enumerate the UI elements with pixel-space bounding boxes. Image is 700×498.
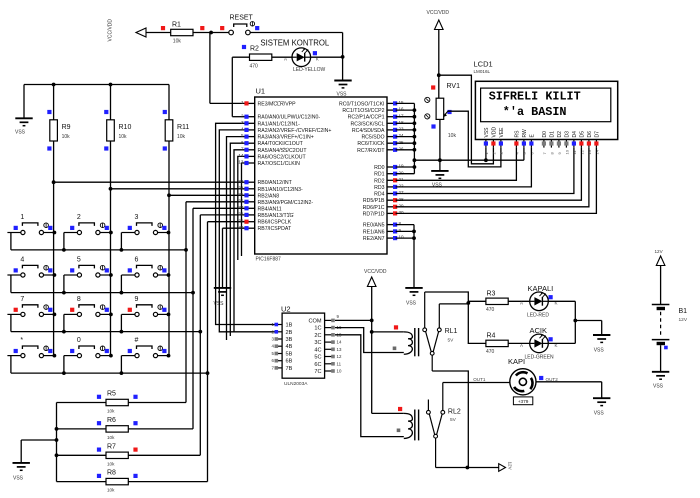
svg-text:#: # xyxy=(135,337,139,344)
svg-text:RV1: RV1 xyxy=(447,83,461,90)
svg-text:20: 20 xyxy=(399,170,405,175)
svg-text:7B: 7B xyxy=(286,366,293,372)
svg-text:R6: R6 xyxy=(107,417,116,424)
wire key 2 stub xyxy=(63,233,65,250)
svg-text:A: A xyxy=(520,343,523,348)
wire col2 to RB1 xyxy=(111,188,247,190)
wire LCD RW to ground xyxy=(523,148,525,161)
wire R2 to RA0 xyxy=(232,56,249,58)
svg-text:RC4/SDI/SDA: RC4/SDI/SDA xyxy=(352,128,385,134)
svg-text:RA5/AN4/SS/C2OUT: RA5/AN4/SS/C2OUT xyxy=(258,148,308,154)
wire to VSS ground LED rows xyxy=(575,320,601,322)
svg-text:RE3/MCLR/VPP: RE3/MCLR/VPP xyxy=(258,101,297,107)
svg-text:39: 39 xyxy=(238,218,244,223)
pin 4 U2 left xyxy=(276,345,282,347)
wire row2 riser xyxy=(192,208,194,429)
wire RA2 to U2 2B xyxy=(219,130,275,332)
svg-text:RC5/SDO: RC5/SDO xyxy=(361,135,384,141)
svg-text:2: 2 xyxy=(77,214,81,221)
svg-text:VSS: VSS xyxy=(653,384,664,390)
svg-text:U2: U2 xyxy=(281,305,291,314)
svg-text:38: 38 xyxy=(238,212,244,217)
wire LED green return xyxy=(548,342,575,344)
pin 34 U1 left xyxy=(246,188,255,190)
svg-text:RE1/AN6: RE1/AN6 xyxy=(363,229,385,235)
svg-text:*: * xyxy=(20,337,23,344)
svg-text:3B: 3B xyxy=(286,337,293,343)
wire R1 to RESET xyxy=(193,32,229,34)
wire RA1 to U2 1B xyxy=(216,123,276,324)
svg-text:5V: 5V xyxy=(450,417,457,423)
wire col1 to RB0 xyxy=(54,181,246,183)
junction key 4 column xyxy=(53,273,57,277)
svg-text:1B: 1B xyxy=(286,323,293,329)
svg-text:A: A xyxy=(520,301,523,306)
pin 25 U1 right xyxy=(387,142,396,144)
pin 16 U2 right xyxy=(325,327,334,329)
wire RA3 stub run xyxy=(227,137,247,340)
svg-text:10k: 10k xyxy=(107,409,115,414)
svg-text:RC0/T1OSO/T1CKI: RC0/T1OSO/T1CKI xyxy=(339,101,385,107)
pin 40 U1 left xyxy=(246,227,255,229)
svg-text:RC6/TX/CK: RC6/TX/CK xyxy=(357,141,385,147)
svg-text:R5: R5 xyxy=(107,391,116,398)
svg-text:VSS: VSS xyxy=(432,183,443,189)
svg-text:17: 17 xyxy=(399,113,405,118)
pin 36 U1 left xyxy=(246,201,255,203)
wire key 5 stub xyxy=(63,275,65,293)
svg-text:4C: 4C xyxy=(314,347,321,353)
svg-text:RB5/AN13/T1G: RB5/AN13/T1G xyxy=(258,213,294,219)
svg-text:VSS: VSS xyxy=(594,411,605,417)
pin 7 U2 left xyxy=(276,367,282,369)
wire RL2 common to 12V rail xyxy=(436,467,499,469)
pin 2 U2 left xyxy=(276,331,282,333)
svg-text:RC7/RX/DT: RC7/RX/DT xyxy=(357,148,385,154)
pin 8 U1 right xyxy=(387,224,396,226)
svg-text:10k: 10k xyxy=(173,39,182,45)
svg-text:4: 4 xyxy=(241,127,244,132)
wire keypad row 4 xyxy=(11,372,208,374)
svg-text:RB4/AN11: RB4/AN11 xyxy=(258,206,282,212)
wire LCD RS to RD2 xyxy=(396,148,517,181)
pin 1 U2 left xyxy=(276,324,282,326)
wire RA7 stub run xyxy=(242,163,247,256)
wire column 3 xyxy=(168,85,170,120)
svg-text:23: 23 xyxy=(399,127,405,132)
wire R5-R8 common xyxy=(56,403,58,482)
wire column 2 xyxy=(110,85,112,120)
ground top-left VSS xyxy=(15,117,32,119)
wire row3 riser xyxy=(199,215,201,455)
svg-text:11: 11 xyxy=(337,361,342,366)
wire U2 COM to VCC xyxy=(335,319,372,321)
svg-text:28: 28 xyxy=(399,197,405,202)
relay RL2 coil xyxy=(372,412,404,414)
wire VCC to R1 xyxy=(146,32,171,34)
svg-text:10: 10 xyxy=(337,369,342,374)
svg-text:15: 15 xyxy=(399,100,405,105)
wire key * stub xyxy=(10,356,12,374)
svg-text:VCC/VDD: VCC/VDD xyxy=(108,19,114,42)
svg-text:R2: R2 xyxy=(250,46,259,53)
svg-text:6: 6 xyxy=(135,257,139,264)
svg-text:13: 13 xyxy=(337,347,342,352)
svg-text:19: 19 xyxy=(399,164,405,169)
wire row1 riser xyxy=(185,202,187,403)
svg-text:10k: 10k xyxy=(107,435,115,440)
pin 10 U2 right xyxy=(325,370,334,372)
svg-text:2C: 2C xyxy=(314,333,321,339)
ground bottom-left (VSS) xyxy=(13,462,30,464)
pin 30 U1 right xyxy=(387,212,396,214)
svg-text:18: 18 xyxy=(399,120,405,125)
svg-text:12V: 12V xyxy=(507,462,512,471)
svg-text:4B: 4B xyxy=(286,344,293,350)
svg-text:36: 36 xyxy=(238,198,244,203)
svg-text:RB0/AN12/INT: RB0/AN12/INT xyxy=(258,180,293,186)
svg-text:RA7/OSC1/CLKIN: RA7/OSC1/CLKIN xyxy=(258,161,301,167)
pin 4 U1 left xyxy=(246,129,255,131)
svg-text:12V: 12V xyxy=(655,249,664,254)
wire keypad row 2 xyxy=(11,292,193,294)
svg-text:7: 7 xyxy=(241,146,244,151)
svg-text:12V: 12V xyxy=(679,317,688,323)
pin 6 U1 left xyxy=(246,142,255,144)
LED D1 LED-YELLOW xyxy=(292,48,311,67)
svg-text:5: 5 xyxy=(77,257,81,264)
wire key 1 stub xyxy=(10,233,12,250)
pin 13 U1 left xyxy=(246,162,255,164)
svg-text:10: 10 xyxy=(564,149,569,154)
wire LCD ground rail xyxy=(414,159,524,161)
svg-text:RD2: RD2 xyxy=(374,178,384,184)
wire RL1 common to 12V xyxy=(432,371,468,468)
svg-text:35: 35 xyxy=(238,192,244,197)
svg-text:RB3/AN9/PGM/C12IN2-: RB3/AN9/PGM/C12IN2- xyxy=(258,200,314,206)
wire RA5 stub run xyxy=(234,150,246,332)
svg-text:22: 22 xyxy=(399,184,405,189)
svg-text:4: 4 xyxy=(20,257,24,264)
svg-text:1C: 1C xyxy=(314,326,321,332)
pin 18 U1 right xyxy=(387,122,396,124)
svg-text:RD4: RD4 xyxy=(374,192,384,198)
svg-text:2B: 2B xyxy=(286,330,293,336)
pin 13 U2 right xyxy=(325,348,334,350)
pin 28 U1 right xyxy=(387,199,396,201)
junction key 0 column xyxy=(109,354,113,358)
svg-text:5B: 5B xyxy=(286,352,293,358)
wire R6 row xyxy=(57,428,107,430)
pin 2 U1 left xyxy=(246,116,255,118)
wire RL2 NO to motor xyxy=(443,382,510,384)
svg-text:D4: D4 xyxy=(572,131,578,138)
svg-text:RA6/OSC2/CLKOUT: RA6/OSC2/CLKOUT xyxy=(258,154,307,160)
svg-text:R8: R8 xyxy=(107,470,116,477)
svg-text:37: 37 xyxy=(238,205,244,210)
wire R5 row xyxy=(57,402,107,404)
wire RESET to ground rail xyxy=(250,32,342,34)
ground above U1 (VSS) xyxy=(334,80,351,82)
svg-text:RA2/AN2/VREF-/CVREF/C2IN+: RA2/AN2/VREF-/CVREF/C2IN+ xyxy=(258,128,332,134)
svg-text:14: 14 xyxy=(337,340,342,345)
svg-text:VCC/VDD: VCC/VDD xyxy=(364,269,387,275)
svg-text:34: 34 xyxy=(238,185,244,190)
relay RL1 coil xyxy=(372,331,404,333)
svg-text:*'a BASIN: *'a BASIN xyxy=(503,105,567,119)
svg-text:10k: 10k xyxy=(107,488,115,493)
wire LCD VSS xyxy=(485,148,487,161)
pin 17 U1 right xyxy=(387,116,396,118)
svg-text:16: 16 xyxy=(399,107,405,112)
svg-text:21: 21 xyxy=(399,177,405,182)
svg-text:470: 470 xyxy=(486,307,495,313)
svg-text:RA4/T0CKI/C1OUT: RA4/T0CKI/C1OUT xyxy=(258,141,304,147)
svg-text:RA1/AN1/C12IN1-: RA1/AN1/C12IN1- xyxy=(258,121,301,127)
ground under U1 (VSS) xyxy=(214,287,231,289)
svg-text:D7: D7 xyxy=(595,131,601,138)
svg-text:R3: R3 xyxy=(487,291,496,298)
junction key 8 column xyxy=(109,313,113,317)
svg-text:SISTEM KONTROL: SISTEM KONTROL xyxy=(260,38,330,47)
op-amp U1 body (PIC16F887) xyxy=(255,97,387,254)
svg-text:7C: 7C xyxy=(314,369,321,375)
junction key 3 column xyxy=(167,231,171,235)
svg-text:10k: 10k xyxy=(62,134,71,140)
pin 24 U1 right xyxy=(387,136,396,138)
svg-text:40: 40 xyxy=(238,225,244,230)
svg-text:3: 3 xyxy=(241,120,244,125)
wire keypad top rail xyxy=(24,84,169,86)
svg-text:27: 27 xyxy=(399,190,405,195)
wire motor to ground xyxy=(536,381,602,383)
svg-text:RC3/SCK/SCL: RC3/SCK/SCL xyxy=(350,121,384,127)
svg-text:KAPI: KAPI xyxy=(508,357,525,366)
wire RA6 stub run xyxy=(238,156,246,260)
wire LCD D4 to RD4 xyxy=(396,148,574,194)
svg-text:PIC16F887: PIC16F887 xyxy=(256,257,282,263)
svg-text:29: 29 xyxy=(399,203,405,208)
svg-text:2: 2 xyxy=(241,113,244,118)
pin 7 U1 left xyxy=(246,149,255,151)
pin 5 U1 left xyxy=(246,136,255,138)
svg-text:RB1/AN10/C12IN3-: RB1/AN10/C12IN3- xyxy=(258,187,304,193)
pin 33 U1 left xyxy=(246,181,255,183)
motor KAPI xyxy=(510,369,536,395)
svg-text:7: 7 xyxy=(20,296,24,303)
pin 5 U2 left xyxy=(276,353,282,355)
wire key # stub xyxy=(120,356,122,374)
svg-text:LCD1: LCD1 xyxy=(474,60,493,69)
svg-text:1: 1 xyxy=(241,100,244,105)
pin 29 U1 right xyxy=(387,206,396,208)
svg-text:13: 13 xyxy=(238,160,244,165)
pin 27 U1 right xyxy=(387,193,396,195)
pin 26 U1 right xyxy=(387,149,396,151)
LED D3 LED-GREEN xyxy=(530,334,549,353)
pin 11 U2 right xyxy=(325,363,334,365)
svg-text:3C: 3C xyxy=(314,340,321,346)
junction key 9 column xyxy=(167,313,171,317)
svg-text:RA0/AN0/ULPWU/C12IN0-: RA0/AN0/ULPWU/C12IN0- xyxy=(258,115,321,121)
svg-text:RL1: RL1 xyxy=(445,328,458,335)
wire col3 to RB2 xyxy=(169,194,246,196)
pin 21 U1 right xyxy=(387,179,396,181)
svg-text:12: 12 xyxy=(337,354,342,359)
svg-text:6B: 6B xyxy=(286,359,293,365)
svg-text:K: K xyxy=(316,56,319,61)
svg-text:RC1/T1OSI/CCP2: RC1/T1OSI/CCP2 xyxy=(342,108,384,114)
wire R4 to LED green xyxy=(508,342,530,344)
wire key 7 stub xyxy=(10,314,12,331)
junction key 6 column xyxy=(167,273,171,277)
svg-text:RE0/AN5: RE0/AN5 xyxy=(363,223,385,229)
svg-text:VSS: VSS xyxy=(13,476,24,482)
svg-text:VSS: VSS xyxy=(15,130,26,136)
wire LCD D5 to RD5 xyxy=(396,148,582,201)
svg-text:COM: COM xyxy=(308,318,321,324)
svg-text:D0: D0 xyxy=(542,131,548,138)
pin 3 U2 left xyxy=(276,338,282,340)
resistor R9 xyxy=(50,120,58,141)
svg-text:RL2: RL2 xyxy=(448,409,461,416)
pin 14 U1 left xyxy=(246,155,255,157)
svg-text:D2: D2 xyxy=(557,131,563,138)
svg-text:10k: 10k xyxy=(119,134,128,140)
svg-text:3: 3 xyxy=(135,214,139,221)
pin 37 U1 left xyxy=(246,207,255,209)
wire LCD E to RD3 xyxy=(396,148,532,187)
pin 15 U1 right xyxy=(387,102,396,104)
pin 1 U1 left xyxy=(246,102,255,104)
svg-text:5: 5 xyxy=(241,133,244,138)
svg-text:RC2/P1A/CCP1: RC2/P1A/CCP1 xyxy=(348,115,385,121)
svg-text:RB7/ICSPDAT: RB7/ICSPDAT xyxy=(258,226,292,232)
power terminal 12V bottom xyxy=(499,464,506,472)
svg-text:B1: B1 xyxy=(679,308,688,315)
pin 39 U1 left xyxy=(246,221,255,223)
svg-text:5V: 5V xyxy=(448,338,455,344)
pin 9 U1 right xyxy=(387,230,396,232)
wire key 4 stub xyxy=(10,275,12,293)
svg-text:VSS: VSS xyxy=(594,348,605,354)
svg-text:470: 470 xyxy=(250,64,259,70)
svg-text:SIFRELI KILIT: SIFRELI KILIT xyxy=(489,89,581,103)
junction key * column xyxy=(53,354,57,358)
wire LCD D6 to RD6 xyxy=(396,148,589,207)
svg-text:VSS: VSS xyxy=(484,127,490,138)
ground LED rows (VSS) xyxy=(593,334,610,336)
wire RE0-RE2 to ground xyxy=(413,225,415,288)
wire RA4 stub run xyxy=(230,143,246,336)
wire keypad row 1 xyxy=(11,249,186,251)
pin 20 U1 right xyxy=(387,173,396,175)
svg-text:ULN2003A: ULN2003A xyxy=(284,381,308,387)
pin 12 U2 right xyxy=(325,356,334,358)
svg-text:RA3/AN3/VREF+/C1IN+: RA3/AN3/VREF+/C1IN+ xyxy=(258,135,314,141)
svg-text:RESET: RESET xyxy=(230,15,254,22)
pin 3 U1 left xyxy=(246,122,255,124)
svg-text:VDD: VDD xyxy=(492,127,498,138)
svg-text:6C: 6C xyxy=(314,362,321,368)
wire R7 row xyxy=(57,454,107,456)
svg-text:R7: R7 xyxy=(107,443,116,450)
svg-text:LED-GREEN: LED-GREEN xyxy=(525,355,555,361)
pin 19 U1 right xyxy=(387,166,396,168)
svg-text:RD1: RD1 xyxy=(374,172,384,178)
svg-text:D1: D1 xyxy=(550,131,556,138)
svg-text:R1: R1 xyxy=(172,22,181,29)
svg-text:LED-RED: LED-RED xyxy=(527,313,549,319)
svg-text:LM016L: LM016L xyxy=(474,69,491,74)
svg-text:10k: 10k xyxy=(448,133,457,139)
svg-text:RD0: RD0 xyxy=(374,165,384,171)
wire R2 to LED anode xyxy=(272,56,292,58)
ground battery (VSS) xyxy=(652,371,669,373)
pin 35 U1 left xyxy=(246,194,255,196)
wire LED cathode to ground xyxy=(311,56,343,58)
svg-text:470: 470 xyxy=(486,349,495,355)
junction key 7 column xyxy=(53,313,57,317)
wire column 1 xyxy=(53,85,55,120)
wire R8 row xyxy=(57,481,107,483)
wire key 6 stub xyxy=(120,275,122,293)
svg-text:D5: D5 xyxy=(580,131,586,138)
svg-text:RB6/ICSPCLK: RB6/ICSPCLK xyxy=(258,220,292,226)
svg-text:VEE: VEE xyxy=(499,127,505,138)
svg-text:30: 30 xyxy=(399,210,405,215)
wire U2 2C to RL2 coil xyxy=(335,335,404,437)
junction key 2 column xyxy=(109,231,113,235)
svg-text:0: 0 xyxy=(77,337,81,344)
svg-text:6: 6 xyxy=(241,140,244,145)
wire U2 1C to RL1 coil xyxy=(335,328,404,353)
svg-text:+379: +379 xyxy=(518,399,529,404)
svg-text:RB2/AN8: RB2/AN8 xyxy=(258,193,280,199)
wire key 0 stub xyxy=(63,356,65,374)
junction key 1 column xyxy=(53,231,57,235)
svg-text:14: 14 xyxy=(238,153,244,158)
svg-text:26: 26 xyxy=(399,146,405,151)
svg-text:24: 24 xyxy=(399,133,405,138)
svg-text:R4: R4 xyxy=(487,333,496,340)
wire RV1 bottom xyxy=(439,119,441,160)
svg-text:RD5/P1B: RD5/P1B xyxy=(363,198,385,204)
ground right of U1 (VSS) xyxy=(405,287,422,289)
svg-text:8: 8 xyxy=(399,221,402,226)
svg-text:9: 9 xyxy=(399,228,402,233)
svg-text:R10: R10 xyxy=(119,124,132,131)
svg-text:RW: RW xyxy=(522,129,528,138)
pin 15 U2 right xyxy=(325,334,334,336)
svg-text:U1: U1 xyxy=(256,87,266,96)
svg-text:R9: R9 xyxy=(62,124,71,131)
wire RV1 wiper to VEE xyxy=(448,111,501,167)
wire R3 to LED red xyxy=(508,300,530,302)
wire LED red return xyxy=(548,300,575,302)
pin 14 U2 right xyxy=(325,341,334,343)
svg-text:OUT1: OUT1 xyxy=(473,377,486,382)
svg-text:33: 33 xyxy=(238,179,244,184)
svg-text:A: A xyxy=(284,56,287,61)
svg-text:8: 8 xyxy=(77,296,81,303)
svg-text:1: 1 xyxy=(20,214,24,221)
ground below RV1 (VSS) xyxy=(431,170,448,172)
pin 9 U2 COM xyxy=(325,319,334,321)
wire RB7 to ground xyxy=(223,227,247,229)
pin 23 U1 right xyxy=(387,129,396,131)
svg-text:RD6/P1C: RD6/P1C xyxy=(363,205,385,211)
